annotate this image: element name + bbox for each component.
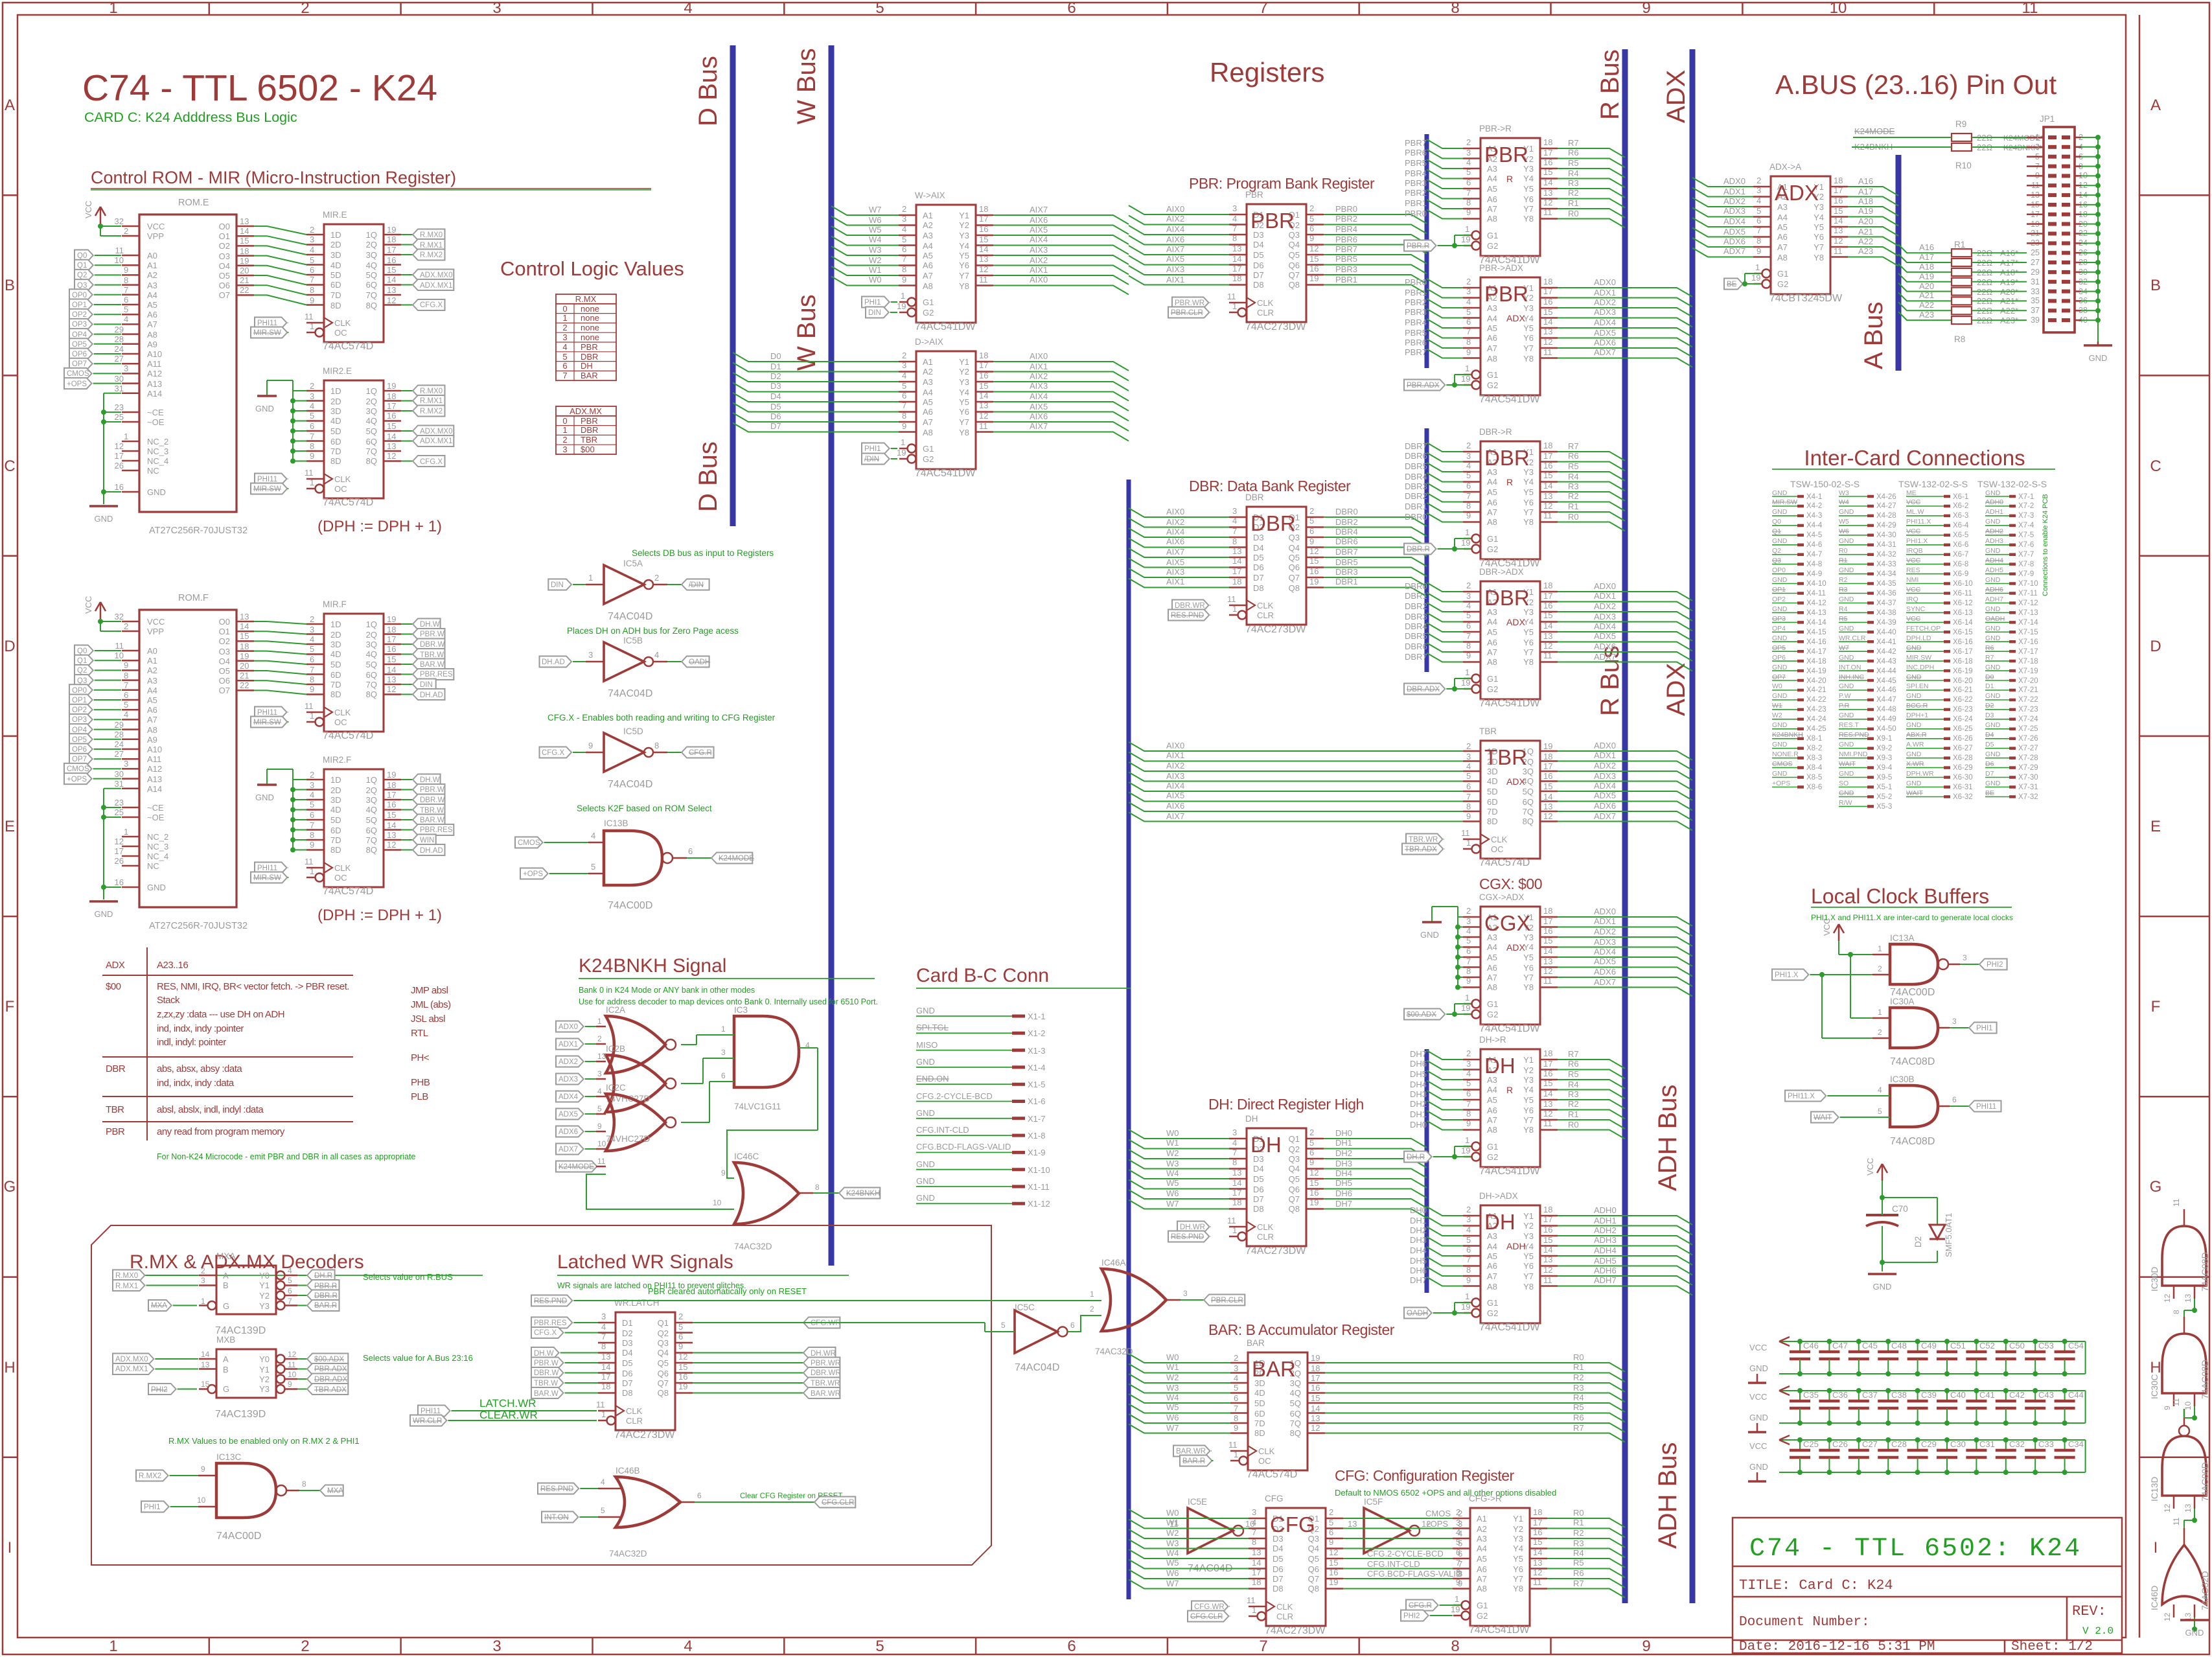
svg-text:1: 1	[1465, 364, 1469, 373]
wire W4	[1129, 1394, 1230, 1403]
svg-text:AIX0: AIX0	[1030, 275, 1048, 284]
svg-text:10: 10	[713, 1198, 722, 1207]
svg-text:H: H	[2150, 1359, 2161, 1376]
svg-text:MXA: MXA	[151, 1302, 167, 1310]
svg-text:D5: D5	[1273, 1554, 1284, 1564]
NAND IC13C 74AC00D	[136, 1452, 343, 1542]
svg-text:PBR.R: PBR.R	[314, 1282, 337, 1290]
svg-text:R: R	[1506, 174, 1513, 184]
wire AIX0	[1129, 742, 1463, 751]
section box decoders and latched WR	[91, 1225, 991, 1565]
svg-text:D0: D0	[770, 351, 781, 361]
svg-text:16: 16	[387, 255, 396, 265]
svg-text:ADH0: ADH0	[1985, 498, 2003, 506]
svg-text:PBR1: PBR1	[1335, 275, 1357, 284]
svg-text:G2: G2	[1477, 1611, 1488, 1621]
svg-text:SPI.TGL: SPI.TGL	[916, 1023, 949, 1032]
svg-text:5: 5	[601, 1506, 605, 1515]
svg-text:G: G	[223, 1384, 229, 1394]
svg-text:X4-49: X4-49	[1876, 715, 1896, 723]
svg-text:NONE.R: NONE.R	[1772, 750, 1799, 758]
svg-text:AIX6: AIX6	[1166, 537, 1184, 546]
svg-text:A8: A8	[147, 725, 157, 735]
svg-text:DH7: DH7	[1410, 1275, 1427, 1285]
svg-text:12: 12	[387, 451, 396, 461]
svg-text:13: 13	[1543, 1099, 1552, 1109]
svg-text:2: 2	[562, 435, 567, 445]
svg-text:Y6: Y6	[1814, 232, 1824, 242]
svg-text:DBR: DBR	[581, 352, 598, 362]
svg-text:D5: D5	[1253, 1174, 1264, 1184]
svg-text:6: 6	[1466, 1245, 1471, 1255]
svg-text:12: 12	[115, 441, 124, 451]
svg-text:R6: R6	[1573, 1568, 1584, 1578]
svg-text:2D: 2D	[330, 630, 341, 640]
svg-text:R3: R3	[1573, 1538, 1584, 1548]
svg-text:VCC: VCC	[1906, 615, 1921, 623]
svg-text:ADX0: ADX0	[1594, 907, 1616, 916]
svg-text:22: 22	[240, 285, 249, 295]
decoder MXA 74AC139D	[113, 1251, 453, 1336]
svg-text:CLK: CLK	[626, 1406, 643, 1416]
svg-text:1Q: 1Q	[366, 230, 377, 240]
svg-text:14: 14	[979, 244, 988, 254]
svg-text:Y6: Y6	[1523, 963, 1534, 973]
svg-text:R9: R9	[1955, 119, 1966, 129]
svg-text:X4-26: X4-26	[1876, 493, 1896, 501]
svg-text:Y5: Y5	[959, 397, 969, 407]
svg-text:NC: NC	[147, 466, 159, 476]
capacitor bank C46-C54	[1748, 1337, 2086, 1383]
svg-text:4D: 4D	[1254, 1388, 1265, 1398]
svg-text:VCC: VCC	[1822, 918, 1832, 936]
svg-text:14: 14	[1543, 792, 1552, 802]
svg-text:CFG.X: CFG.X	[420, 458, 443, 466]
wire R7	[1558, 148, 1625, 157]
svg-text:X4-1: X4-1	[1806, 493, 1822, 501]
svg-text:DBR5: DBR5	[1405, 631, 1427, 641]
svg-text:GND: GND	[1985, 605, 2001, 613]
svg-text:X7-4: X7-4	[2018, 522, 2034, 529]
wire R1	[1558, 1120, 1625, 1129]
svg-text:5D: 5D	[330, 815, 341, 825]
wire DBR7	[1427, 653, 1463, 662]
svg-text:A20: A20	[1919, 281, 1934, 291]
svg-text:R3: R3	[1568, 1089, 1579, 1099]
svg-text:16: 16	[1834, 196, 1843, 205]
svg-text:Q2: Q2	[1772, 547, 1781, 555]
flag PHI1 / DIN for W->AIX	[862, 297, 890, 308]
svg-text:2: 2	[562, 323, 567, 332]
svg-text:G1: G1	[1777, 269, 1788, 279]
svg-text:O0: O0	[219, 617, 230, 627]
svg-text:GND: GND	[1985, 750, 2001, 758]
svg-text:9: 9	[310, 840, 314, 850]
svg-text:C45: C45	[1862, 1341, 1878, 1350]
svg-text:W4: W4	[1166, 1548, 1179, 1558]
svg-text:6: 6	[562, 361, 567, 371]
svg-text:Selects DB bus as input to Reg: Selects DB bus as input to Registers	[632, 548, 774, 558]
capacitor bank C35-C44	[1748, 1386, 2086, 1432]
wire D7	[733, 423, 899, 432]
svg-text:5Q: 5Q	[1290, 1398, 1301, 1408]
svg-text:A4: A4	[1487, 617, 1497, 627]
svg-text:GND: GND	[916, 1057, 935, 1067]
svg-text:C27: C27	[1862, 1439, 1878, 1449]
svg-text:7Q: 7Q	[366, 835, 377, 845]
wire W2	[1129, 1374, 1230, 1383]
svg-text:7: 7	[902, 254, 906, 264]
svg-text:A5: A5	[1487, 1251, 1497, 1261]
svg-text:13: 13	[1543, 631, 1552, 641]
svg-text:C42: C42	[2009, 1390, 2025, 1400]
svg-text:ADX: ADX	[1662, 70, 1690, 123]
svg-text:~OE: ~OE	[147, 813, 165, 822]
svg-text:X6-22: X6-22	[1953, 696, 1973, 704]
svg-text:W0: W0	[1166, 1508, 1179, 1518]
svg-text:G2: G2	[1487, 241, 1498, 251]
svg-text:A7: A7	[1477, 1574, 1487, 1584]
svg-text:R.MX2: R.MX2	[139, 1472, 161, 1480]
svg-text:JML (abs): JML (abs)	[411, 999, 451, 1010]
svg-text:7: 7	[1259, 0, 1267, 17]
wire W0	[831, 277, 899, 286]
svg-text:2: 2	[1466, 1049, 1471, 1058]
svg-text:15: 15	[1543, 307, 1552, 317]
svg-text:TBR.W: TBR.W	[534, 1380, 558, 1387]
svg-text:D8: D8	[1253, 583, 1264, 593]
svg-text:R7: R7	[1985, 654, 1994, 662]
wire R6	[1558, 1070, 1625, 1079]
svg-text:74AC00D: 74AC00D	[2200, 1462, 2210, 1501]
svg-text:15: 15	[1309, 556, 1319, 566]
svg-text:9: 9	[1466, 976, 1471, 986]
gate IC30C 74AC08D	[2162, 1334, 2206, 1393]
wire ADX7	[1692, 248, 1753, 257]
AND IC3 74LVC1G11	[681, 1005, 810, 1122]
svg-text:NMI.PND: NMI.PND	[1839, 750, 1868, 758]
svg-text:K24BNKH: K24BNKH	[846, 1190, 880, 1198]
svg-text:GND: GND	[1772, 664, 1788, 671]
svg-text:5: 5	[310, 644, 314, 654]
flag R.MX2	[401, 254, 413, 255]
svg-text:Selects value for A.Bus 23:16: Selects value for A.Bus 23:16	[363, 1353, 473, 1363]
flag ADX.MX0	[401, 274, 413, 275]
svg-text:7: 7	[310, 820, 314, 830]
wire R0	[1558, 219, 1625, 228]
svg-text:W Bus: W Bus	[792, 48, 821, 124]
svg-text:JMP absl: JMP absl	[411, 985, 448, 996]
svg-text:G1: G1	[923, 297, 934, 307]
svg-text:NC_4: NC_4	[147, 456, 168, 466]
svg-text:2Q: 2Q	[366, 397, 377, 406]
svg-text:DH7: DH7	[1410, 1049, 1427, 1059]
svg-text:IC5E: IC5E	[1188, 1497, 1207, 1507]
svg-text:DPH.WR: DPH.WR	[1906, 770, 1934, 778]
svg-text:6: 6	[1466, 178, 1471, 187]
svg-text:DH: Direct Register High: DH: Direct Register High	[1208, 1096, 1364, 1113]
svg-text:Q2: Q2	[77, 272, 87, 279]
svg-text:11: 11	[1227, 292, 1236, 301]
svg-text:ADH: ADH	[1506, 1241, 1526, 1251]
svg-text:GND: GND	[1749, 1462, 1768, 1472]
svg-text:6: 6	[1309, 526, 1314, 536]
svg-text:8: 8	[902, 411, 906, 421]
svg-text:MISO: MISO	[916, 1040, 938, 1050]
svg-text:SO: SO	[1839, 780, 1849, 787]
svg-text:7: 7	[1757, 226, 1761, 235]
svg-text:C52: C52	[1979, 1341, 1995, 1350]
svg-text:ADH1: ADH1	[1985, 508, 2003, 516]
svg-text:3Q: 3Q	[366, 795, 377, 805]
svg-text:A: A	[223, 1271, 229, 1280]
svg-text:1: 1	[1465, 993, 1469, 1002]
svg-text:AIX7: AIX7	[1166, 244, 1184, 254]
svg-text:Control Logic Values: Control Logic Values	[500, 257, 684, 280]
svg-text:D6: D6	[1273, 1564, 1284, 1574]
svg-text:1: 1	[1232, 1225, 1237, 1235]
svg-text:Q0: Q0	[77, 252, 87, 260]
svg-text:Y5: Y5	[1523, 627, 1534, 637]
svg-text:1: 1	[1878, 944, 1882, 953]
svg-text:OP7: OP7	[72, 360, 87, 368]
svg-text:2: 2	[201, 1266, 205, 1275]
svg-text:4: 4	[1234, 1373, 1238, 1383]
svg-text:Y1: Y1	[959, 357, 969, 367]
svg-text:MXA: MXA	[216, 1251, 235, 1261]
svg-text:15: 15	[979, 381, 988, 391]
wire D1	[733, 363, 899, 372]
svg-text:4: 4	[310, 401, 314, 411]
svg-text:OP6: OP6	[1772, 654, 1786, 662]
svg-text:Y4: Y4	[1513, 1544, 1523, 1553]
svg-text:A5: A5	[1777, 222, 1788, 232]
svg-text:C41: C41	[1979, 1390, 1995, 1400]
svg-text:Q3: Q3	[77, 677, 87, 685]
wire R5	[1558, 1080, 1625, 1089]
svg-text:DBR.R: DBR.R	[314, 1292, 338, 1300]
svg-text:7D: 7D	[1487, 807, 1498, 817]
svg-text:74AC574D: 74AC574D	[1479, 857, 1530, 868]
svg-text:14: 14	[387, 432, 396, 441]
svg-text:Y8: Y8	[1523, 214, 1534, 224]
svg-text:VCC: VCC	[1906, 527, 1921, 535]
svg-text:ADX7: ADX7	[1594, 811, 1616, 821]
svg-text:R.MX1: R.MX1	[420, 242, 443, 249]
flag DH.AD	[401, 850, 413, 851]
svg-text:A4: A4	[147, 290, 157, 300]
svg-text:CLK: CLK	[1257, 601, 1274, 610]
svg-text:DH3: DH3	[1410, 1089, 1427, 1099]
bus R Bus	[1622, 49, 1628, 1603]
svg-text:DH4: DH4	[1410, 1246, 1427, 1255]
svg-text:SMF5.0AT1: SMF5.0AT1	[1944, 1213, 1953, 1257]
wire PBR4	[1324, 235, 1427, 244]
svg-text:IC13C: IC13C	[216, 1452, 242, 1462]
svg-text:15: 15	[1311, 1393, 1320, 1403]
svg-text:RES.PND: RES.PND	[1839, 731, 1869, 739]
svg-text:X4-41: X4-41	[1876, 638, 1896, 646]
svg-text:D7: D7	[770, 421, 781, 431]
svg-text:R1: R1	[1839, 557, 1848, 564]
wire R0	[1325, 1363, 1625, 1372]
svg-text:TSW-150-02-S-S: TSW-150-02-S-S	[1790, 479, 1860, 489]
svg-text:X1-10: X1-10	[1028, 1165, 1050, 1175]
svg-text:C43: C43	[2038, 1390, 2054, 1400]
svg-text:DBR0: DBR0	[1335, 507, 1358, 516]
svg-text:74AC04D: 74AC04D	[608, 779, 652, 790]
wire ADX6	[1558, 348, 1692, 357]
wire R4	[1558, 482, 1625, 491]
svg-text:DBR6: DBR6	[1405, 451, 1427, 461]
svg-text:18: 18	[1311, 1363, 1320, 1373]
svg-text:DH: DH	[1250, 1133, 1282, 1157]
flag ADX.MX1	[401, 441, 413, 442]
svg-text:DH6: DH6	[1410, 1059, 1427, 1069]
svg-text:K24MODE: K24MODE	[719, 855, 754, 863]
svg-text:2Q: 2Q	[366, 240, 377, 249]
svg-text:IC2C: IC2C	[606, 1083, 626, 1093]
svg-text:W2: W2	[1166, 1528, 1179, 1538]
wire R7	[1325, 1433, 1625, 1443]
svg-text:R0: R0	[1568, 1120, 1579, 1130]
svg-text:14: 14	[387, 820, 396, 830]
svg-text:R10: R10	[1955, 161, 1972, 170]
svg-text:12: 12	[2163, 1503, 2172, 1512]
flag PBR.RES	[401, 829, 413, 831]
svg-text:R6: R6	[1568, 148, 1579, 157]
svg-text:X4-24: X4-24	[1806, 715, 1826, 723]
svg-text:R6: R6	[1573, 1413, 1584, 1422]
svg-text:4: 4	[1466, 157, 1471, 167]
svg-text:AIX1: AIX1	[1166, 275, 1184, 284]
svg-text:Y3: Y3	[1523, 1075, 1534, 1085]
svg-text:19: 19	[240, 651, 249, 661]
wire AIX3	[1129, 266, 1229, 275]
svg-text:GND: GND	[147, 487, 166, 497]
wire ADX2	[1558, 612, 1692, 621]
NOR IC2C 74VHC27D	[606, 1083, 676, 1151]
wire DH2	[1427, 1227, 1463, 1236]
svg-text:WAIT: WAIT	[1839, 760, 1856, 768]
IC DBR->ADX 74AC541DW	[1404, 567, 1558, 709]
svg-text:A4: A4	[1487, 1085, 1497, 1095]
svg-text:A8: A8	[1487, 214, 1497, 224]
svg-text:4Q: 4Q	[366, 805, 377, 815]
svg-text:74AC541DW: 74AC541DW	[1479, 1322, 1540, 1333]
svg-text:W6: W6	[869, 215, 882, 225]
wire PBR2	[1427, 190, 1463, 199]
wire DH4	[1324, 1179, 1427, 1188]
wire AIX7	[993, 215, 1129, 224]
svg-text:BE: BE	[1727, 281, 1737, 288]
svg-text:none: none	[581, 323, 599, 332]
svg-text:X7-17: X7-17	[2018, 648, 2038, 656]
svg-text:D7: D7	[1273, 1574, 1284, 1584]
NAND IC13B 74AC00D	[515, 818, 754, 911]
svg-text:C74 - TTL 6502 - K24: C74 - TTL 6502 - K24	[82, 67, 437, 109]
wire DBR7	[1427, 443, 1463, 452]
svg-text:2: 2	[654, 573, 659, 583]
svg-text:18: 18	[1252, 1577, 1261, 1587]
svg-text:6: 6	[1952, 1095, 1957, 1104]
svg-text:7Q: 7Q	[366, 290, 377, 300]
svg-text:PBR.W: PBR.W	[420, 631, 444, 638]
svg-text:5D: 5D	[330, 270, 341, 280]
svg-text:74AC541DW: 74AC541DW	[1479, 1023, 1540, 1034]
svg-text:3: 3	[310, 780, 314, 790]
svg-text:IC30A: IC30A	[1890, 997, 1915, 1006]
svg-text:A7: A7	[923, 417, 933, 427]
wire chain right gates to GND	[2180, 1299, 2209, 1638]
svg-text:X4-16: X4-16	[1806, 638, 1826, 646]
svg-text:Y7: Y7	[959, 271, 969, 281]
svg-text:18: 18	[1543, 1205, 1552, 1214]
svg-text:D6: D6	[1253, 562, 1264, 572]
svg-text:16: 16	[1533, 1527, 1542, 1537]
svg-text:CFG.X: CFG.X	[534, 1329, 557, 1337]
svg-text:ADX4: ADX4	[1594, 947, 1616, 956]
svg-text:4: 4	[124, 314, 128, 324]
svg-text:G1: G1	[1487, 1142, 1498, 1152]
svg-text:3: 3	[601, 1312, 606, 1321]
svg-text:10: 10	[197, 1496, 206, 1505]
svg-text:8: 8	[601, 1341, 606, 1351]
wire W4	[1129, 1549, 1249, 1559]
svg-text:1: 1	[901, 437, 905, 447]
svg-text:W4: W4	[1166, 1168, 1179, 1178]
svg-text:X5-2: X5-2	[1876, 793, 1892, 801]
svg-text:9: 9	[1456, 1577, 1460, 1587]
wire AIX1	[993, 275, 1129, 284]
svg-text:C34: C34	[2068, 1439, 2084, 1449]
svg-text:Selects value on R.BUS: Selects value on R.BUS	[363, 1272, 453, 1282]
svg-text:W7: W7	[1166, 1423, 1179, 1433]
svg-text:X1-12: X1-12	[1028, 1199, 1050, 1209]
wire AIX4	[993, 246, 1129, 255]
svg-text:A3: A3	[923, 377, 933, 387]
svg-text:4: 4	[310, 790, 314, 800]
svg-text:X4-36: X4-36	[1876, 590, 1896, 597]
svg-text:A0: A0	[147, 251, 157, 261]
wire ADX3	[1558, 622, 1692, 631]
svg-text:19: 19	[1329, 1577, 1338, 1587]
svg-text:DH6: DH6	[1335, 1188, 1352, 1198]
svg-text:7: 7	[1234, 1404, 1238, 1413]
svg-text:Q3: Q3	[77, 282, 87, 290]
svg-text:18: 18	[1232, 577, 1241, 586]
table R.MX	[556, 294, 616, 380]
svg-text:R0: R0	[1573, 1508, 1584, 1518]
svg-text:X4-22: X4-22	[1806, 696, 1826, 704]
IC ADX->A 74CBT3245DW	[1724, 162, 1848, 304]
wire ADH2	[1558, 1236, 1692, 1245]
svg-text:PBR.WR: PBR.WR	[811, 1360, 840, 1367]
svg-text:none: none	[581, 304, 599, 314]
svg-text:DH3: DH3	[1410, 1235, 1427, 1245]
svg-text:17: 17	[1252, 1568, 1261, 1577]
svg-text:A23: A23	[1919, 310, 1934, 319]
inverter IC5E 74AC04D	[1169, 1497, 1254, 1574]
svg-text:JSL absl: JSL absl	[411, 1014, 445, 1025]
svg-text:ADX6: ADX6	[1594, 801, 1616, 811]
opcode list	[411, 985, 451, 1102]
svg-text:A0: A0	[147, 646, 157, 656]
svg-text:8D: 8D	[1487, 817, 1498, 826]
wire D6	[733, 413, 899, 422]
svg-text:DIN: DIN	[420, 681, 433, 689]
svg-text:A7: A7	[147, 319, 157, 329]
